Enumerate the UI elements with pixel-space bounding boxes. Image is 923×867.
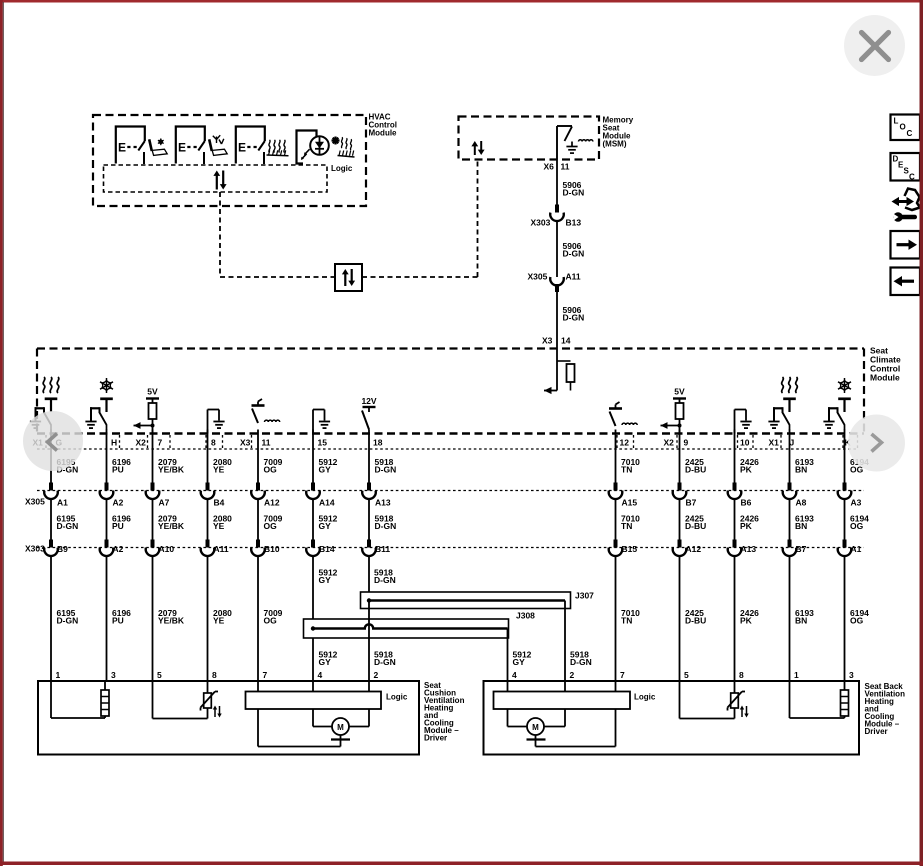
svg-text:X2: X2	[136, 438, 147, 448]
svg-text:E: E	[238, 141, 246, 155]
svg-text:GY: GY	[319, 465, 332, 475]
svg-text:D-GN: D-GN	[375, 521, 397, 531]
svg-text:YE: YE	[213, 465, 225, 475]
svg-text:5V: 5V	[147, 387, 158, 397]
svg-text:D-GN: D-GN	[563, 188, 585, 198]
svg-text:18: 18	[373, 438, 383, 448]
svg-text:A11: A11	[214, 544, 229, 554]
svg-text:X3: X3	[240, 438, 251, 448]
svg-text:A11: A11	[566, 272, 581, 282]
svg-text:A3: A3	[851, 498, 862, 508]
svg-text:D-GN: D-GN	[374, 657, 396, 667]
svg-text:A10: A10	[159, 544, 175, 554]
svg-text:GY: GY	[319, 657, 332, 667]
svg-text:TN: TN	[621, 616, 632, 626]
svg-text:PK: PK	[740, 616, 753, 626]
svg-text:GY: GY	[319, 521, 332, 531]
svg-text:B7: B7	[686, 498, 697, 508]
svg-text:B10: B10	[264, 544, 280, 554]
svg-text:Logic: Logic	[634, 693, 656, 702]
svg-text:D-GN: D-GN	[570, 657, 592, 667]
svg-text:B7: B7	[796, 544, 807, 554]
svg-text:A1: A1	[57, 498, 68, 508]
svg-text:OG: OG	[850, 521, 864, 531]
svg-text:B11: B11	[375, 544, 390, 554]
svg-text:A15: A15	[622, 498, 638, 508]
svg-text:YE: YE	[213, 616, 225, 626]
svg-text:Logic: Logic	[331, 164, 353, 173]
svg-text:TN: TN	[621, 465, 632, 475]
svg-text:L: L	[894, 117, 899, 126]
svg-text:TN: TN	[621, 521, 632, 531]
svg-text:B13: B13	[566, 218, 582, 228]
svg-text:PU: PU	[112, 465, 124, 475]
svg-text:Module: Module	[369, 129, 398, 138]
svg-text:14: 14	[561, 336, 571, 346]
svg-text:E: E	[178, 141, 186, 155]
svg-text:2: 2	[374, 670, 379, 680]
svg-text:A12: A12	[264, 498, 280, 508]
svg-text:E: E	[118, 141, 126, 155]
svg-text:BN: BN	[795, 465, 807, 475]
svg-text:YE/BK: YE/BK	[158, 465, 185, 475]
svg-text:PK: PK	[740, 465, 753, 475]
svg-text:PU: PU	[112, 616, 124, 626]
svg-text:B9: B9	[57, 544, 68, 554]
svg-text:3: 3	[849, 670, 854, 680]
svg-text:O: O	[900, 123, 906, 132]
svg-text:8: 8	[211, 438, 216, 448]
svg-text:YE/BK: YE/BK	[158, 521, 185, 531]
svg-text:A13: A13	[741, 544, 757, 554]
svg-text:X6: X6	[544, 162, 555, 172]
svg-text:1: 1	[56, 670, 61, 680]
svg-text:X2: X2	[664, 438, 675, 448]
svg-text:8: 8	[739, 670, 744, 680]
svg-text:Driver: Driver	[424, 734, 447, 743]
svg-text:A1: A1	[851, 544, 862, 554]
svg-text:X303: X303	[531, 218, 551, 228]
svg-text:8: 8	[212, 670, 217, 680]
svg-text:5: 5	[157, 670, 162, 680]
svg-text:GY: GY	[319, 575, 332, 585]
svg-text:OG: OG	[850, 616, 864, 626]
svg-text:7: 7	[620, 670, 625, 680]
svg-text:BN: BN	[795, 521, 807, 531]
svg-text:15: 15	[318, 438, 328, 448]
svg-text:D-BU: D-BU	[685, 521, 706, 531]
svg-text:PK: PK	[740, 521, 753, 531]
svg-text:YE: YE	[213, 521, 225, 531]
svg-text:J308: J308	[516, 611, 535, 621]
svg-text:3: 3	[111, 670, 116, 680]
svg-text:GY: GY	[513, 657, 526, 667]
svg-text:9: 9	[684, 438, 689, 448]
svg-text:OG: OG	[264, 465, 278, 475]
svg-text:12: 12	[620, 438, 630, 448]
svg-text:C: C	[909, 173, 915, 182]
svg-text:B14: B14	[319, 544, 335, 554]
svg-text:J307: J307	[575, 591, 594, 601]
svg-text:7: 7	[263, 670, 268, 680]
svg-text:A14: A14	[319, 498, 335, 508]
svg-text:A2: A2	[113, 498, 124, 508]
svg-text:X305: X305	[25, 497, 45, 507]
svg-text:A7: A7	[159, 498, 170, 508]
svg-text:YE/BK: YE/BK	[158, 616, 185, 626]
svg-text:C: C	[907, 129, 913, 138]
svg-text:X305: X305	[528, 272, 548, 282]
svg-text:D-GN: D-GN	[57, 616, 79, 626]
svg-text:BN: BN	[795, 616, 807, 626]
svg-text:M: M	[532, 723, 539, 732]
svg-text:D-BU: D-BU	[685, 616, 706, 626]
svg-text:A8: A8	[796, 498, 807, 508]
svg-text:D-GN: D-GN	[57, 521, 79, 531]
svg-text:7: 7	[158, 438, 163, 448]
svg-text:Driver: Driver	[865, 727, 888, 736]
svg-text:10: 10	[740, 438, 750, 448]
svg-text:OG: OG	[264, 521, 278, 531]
svg-text:4: 4	[512, 670, 517, 680]
svg-text:1: 1	[794, 670, 799, 680]
svg-text:A2: A2	[113, 544, 124, 554]
svg-text:11: 11	[262, 438, 271, 448]
svg-text:A13: A13	[375, 498, 391, 508]
svg-text:B4: B4	[214, 498, 225, 508]
svg-text:X1: X1	[769, 438, 780, 448]
svg-text:M: M	[337, 723, 344, 732]
svg-text:B15: B15	[622, 544, 638, 554]
svg-text:D-GN: D-GN	[374, 575, 396, 585]
svg-text:PU: PU	[112, 521, 124, 531]
svg-text:X3: X3	[542, 336, 553, 346]
svg-text:H: H	[111, 438, 117, 448]
svg-text:D-GN: D-GN	[563, 249, 585, 259]
svg-text:2: 2	[570, 670, 575, 680]
svg-text:Logic: Logic	[386, 693, 408, 702]
svg-text:12V: 12V	[361, 396, 376, 406]
svg-text:D-GN: D-GN	[375, 465, 397, 475]
svg-text:D-GN: D-GN	[563, 313, 585, 323]
svg-text:A12: A12	[686, 544, 702, 554]
svg-text:Module: Module	[870, 373, 900, 383]
svg-text:B6: B6	[741, 498, 752, 508]
svg-text:X303: X303	[25, 544, 45, 554]
svg-text:OG: OG	[264, 616, 278, 626]
svg-text:(MSM): (MSM)	[603, 140, 627, 149]
svg-text:D-BU: D-BU	[685, 465, 706, 475]
svg-text:4: 4	[318, 670, 323, 680]
svg-text:5: 5	[684, 670, 689, 680]
svg-text:11: 11	[561, 162, 570, 172]
svg-text:5V: 5V	[674, 387, 685, 397]
